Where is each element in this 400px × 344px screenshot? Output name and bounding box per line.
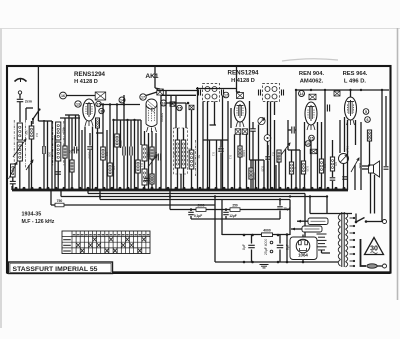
svg-text:1934-35: 1934-35 xyxy=(22,212,42,218)
resistor R11 xyxy=(150,174,154,190)
wire supply rail y196.5 xyxy=(61,190,327,214)
capacitor C22 xyxy=(265,145,271,190)
heater stack xyxy=(317,234,327,250)
dropper box A xyxy=(308,218,328,225)
capacitor C20 xyxy=(87,133,93,149)
label 25uF vertical xyxy=(264,239,268,255)
rectifier enclosure xyxy=(290,237,317,260)
svg-text:17: 17 xyxy=(224,93,228,97)
wire speaker left xyxy=(362,168,369,170)
meter circle xyxy=(258,117,265,124)
wire x171 drop xyxy=(170,95,172,190)
grid cap box V3 xyxy=(237,93,244,99)
fuse F1 xyxy=(367,264,377,268)
wire x92 pin drop xyxy=(92,127,94,191)
svg-text:300: 300 xyxy=(62,128,66,133)
label tube V2 AK1 xyxy=(145,73,159,80)
wave switch S1 xyxy=(32,108,41,120)
wire x156 drop xyxy=(155,133,157,190)
svg-text:AK1: AK1 xyxy=(145,73,159,80)
circled 8 xyxy=(99,108,104,113)
wire x249 drop xyxy=(249,101,251,160)
wire x222 drop xyxy=(222,96,224,191)
capacitor C6 xyxy=(158,154,160,161)
resistor R14 xyxy=(277,150,281,162)
wire x222 drop2 xyxy=(221,200,223,236)
text MF 126kHz xyxy=(22,219,55,225)
svg-text:8μF: 8μF xyxy=(286,244,290,250)
wire R3 to bus xyxy=(97,128,99,190)
padder box L7/L8 xyxy=(174,128,188,174)
IF T2 cap right xyxy=(282,90,284,96)
electrolytic C5 xyxy=(130,120,132,190)
wire speaker drop2 xyxy=(374,175,376,214)
thick neutral wire xyxy=(361,239,367,266)
wire y118 link xyxy=(60,117,80,119)
svg-text:300: 300 xyxy=(25,130,29,135)
wire 16 to cap box xyxy=(67,95,96,97)
trimmer arrow osc xyxy=(148,155,157,167)
wire x161 drop xyxy=(160,95,162,190)
wire rect anode xyxy=(302,235,304,263)
circled 15 xyxy=(96,101,101,106)
capacitor C2 xyxy=(10,181,16,183)
box label 18 xyxy=(309,94,316,100)
wire x347 low xyxy=(347,120,349,190)
resistor R15 xyxy=(289,150,293,190)
resistor R20 750 xyxy=(55,199,64,207)
wire supply rail y199.5 xyxy=(100,190,290,235)
electrolytic C17 xyxy=(248,235,255,263)
wire x325 drop xyxy=(324,90,326,190)
resistor R18 xyxy=(330,140,334,177)
svg-text:25: 25 xyxy=(172,152,176,156)
svg-text:STASSFURT IMPERIAL 55: STASSFURT IMPERIAL 55 xyxy=(13,266,98,273)
wire L7 leads xyxy=(177,128,179,190)
resistor R21 2000 xyxy=(196,204,206,212)
wire x382 mains drop xyxy=(381,90,383,222)
wire R1 to bus xyxy=(31,121,33,190)
wire P1 to cap xyxy=(12,177,14,181)
svg-text:0,1: 0,1 xyxy=(212,152,216,156)
svg-text:2000: 2000 xyxy=(119,140,123,147)
wire x311 lower xyxy=(310,141,312,190)
capacitor C11 xyxy=(342,177,348,179)
wire y160 rail xyxy=(250,159,265,161)
svg-text:4000: 4000 xyxy=(263,229,271,233)
wire y108 left link xyxy=(26,107,33,109)
junction dot mid xyxy=(187,102,190,105)
tuning cap C1 xyxy=(43,120,45,190)
wire x176 mid xyxy=(175,95,177,128)
svg-text:50000: 50000 xyxy=(160,113,164,122)
svg-text:0,5: 0,5 xyxy=(112,166,116,170)
tube V3 RENS1294 xyxy=(234,101,246,127)
box label 11 xyxy=(189,105,194,110)
wire x279 lower xyxy=(278,162,280,190)
wire x134.5 drop xyxy=(134,120,136,190)
circled 15 osc xyxy=(177,105,182,110)
wire y120 rail2 xyxy=(114,119,142,121)
wire x300 mid xyxy=(299,150,301,190)
tube V5 RES964 xyxy=(345,97,357,125)
circled 14 af xyxy=(299,91,305,97)
svg-text:25μF 4000: 25μF 4000 xyxy=(264,239,268,255)
wire L8 leads xyxy=(183,128,185,190)
svg-text:50μF: 50μF xyxy=(346,146,350,153)
svg-text:L 496 D.: L 496 D. xyxy=(344,79,367,85)
circled 17 ak1 xyxy=(140,92,157,100)
schematic border frame xyxy=(7,66,391,273)
value 600 label xyxy=(358,163,362,169)
wire x124 up xyxy=(123,95,125,105)
value 50000 vertical xyxy=(160,113,164,122)
transformer core xyxy=(342,212,344,267)
wire supply rail y205 xyxy=(51,190,215,205)
wire x72 drop xyxy=(71,118,73,190)
svg-text:30: 30 xyxy=(370,246,378,253)
svg-text:0,1: 0,1 xyxy=(272,152,276,156)
wire y90 rail right xyxy=(296,89,389,91)
svg-text:6: 6 xyxy=(367,118,369,122)
socket box V3b xyxy=(242,129,248,135)
antenna coil L2 xyxy=(17,142,22,161)
svg-text:15: 15 xyxy=(178,106,182,110)
wire V5 top xyxy=(350,90,352,97)
potentiometer P1 xyxy=(9,162,18,179)
scan top edge line xyxy=(0,28,400,30)
svg-text:500: 500 xyxy=(48,152,52,157)
svg-text:15: 15 xyxy=(310,136,314,140)
volume pot arrow xyxy=(26,160,33,190)
label tube V4 REN904 xyxy=(299,71,325,84)
circled 17 xyxy=(223,92,229,98)
wire x296 drop xyxy=(295,90,297,190)
box label 21 xyxy=(334,91,340,96)
transformer taps xyxy=(350,217,356,267)
wire x127.5 drop xyxy=(127,120,129,190)
IF transformer T2 box xyxy=(263,84,280,102)
title box xyxy=(9,262,113,274)
oscillator coil L3 xyxy=(56,122,61,140)
wire antenna lead xyxy=(19,94,21,98)
electrolytic C4 xyxy=(123,105,125,191)
wire supply rail y193.5 xyxy=(88,190,305,241)
osc coil L5 xyxy=(142,145,147,161)
wire y133 left small xyxy=(96,132,103,134)
svg-text:25μF: 25μF xyxy=(283,207,290,211)
wire stack down xyxy=(322,250,331,253)
resistor R10 xyxy=(150,131,154,174)
box label 20 xyxy=(310,149,317,154)
wire x231 mid xyxy=(230,108,232,128)
wire y166 right xyxy=(362,165,370,167)
mains switch xyxy=(355,218,382,224)
label tube V5 RES964 xyxy=(343,71,368,84)
resistor R12 xyxy=(238,134,242,190)
wire x270 drop xyxy=(270,102,272,191)
text 1934-35 xyxy=(22,212,42,218)
wire x107 mid xyxy=(106,130,108,190)
IF T2 coils xyxy=(265,87,277,100)
svg-text:1000: 1000 xyxy=(154,152,158,159)
svg-text:50000: 50000 xyxy=(253,172,257,180)
svg-text:0,25: 0,25 xyxy=(306,166,310,172)
circled 5 xyxy=(363,109,369,115)
electrolytic C18 xyxy=(277,235,290,263)
capacitor C23 xyxy=(288,127,296,134)
svg-text:0,1μF: 0,1μF xyxy=(194,214,202,218)
wire switch up xyxy=(355,214,357,223)
wire L2 to bus xyxy=(19,161,21,190)
wire x246 drop xyxy=(246,134,248,190)
circled 13 xyxy=(75,101,81,107)
capacitor C15 xyxy=(277,200,291,220)
potentiometer P3 xyxy=(351,158,359,190)
wire x209 low xyxy=(209,140,211,190)
wire y121 link xyxy=(38,120,52,122)
wire V2 cap lead xyxy=(155,66,160,89)
transformer secondary xyxy=(346,213,348,267)
svg-text:0,5: 0,5 xyxy=(334,162,338,166)
circled 19 xyxy=(305,141,311,147)
wire antenna to coil xyxy=(19,102,21,122)
svg-text:15: 15 xyxy=(97,102,101,106)
svg-text:750: 750 xyxy=(57,199,63,203)
wire x361 upper xyxy=(360,122,362,155)
wire C2 to bus xyxy=(12,184,14,190)
resistor R1 xyxy=(29,126,34,139)
arrow lead B xyxy=(291,228,302,231)
wire x69 upper xyxy=(68,115,70,190)
svg-text:0,1: 0,1 xyxy=(105,152,109,156)
wire y88.5 rail xyxy=(196,88,237,90)
shield dash line right xyxy=(25,120,27,168)
speaker LS xyxy=(369,161,380,177)
wire x79 drop xyxy=(78,115,80,190)
wire x141 drop xyxy=(140,120,142,145)
svg-text:14: 14 xyxy=(300,92,304,96)
junction dots rails xyxy=(99,89,383,264)
wire x355 upper xyxy=(355,120,357,145)
wire y219 gnd link xyxy=(191,218,280,220)
wire x321 upper xyxy=(321,122,323,159)
capacitor C12 xyxy=(384,167,389,169)
wire fuse to term xyxy=(377,265,382,267)
scan right edge line xyxy=(397,28,399,300)
svg-text:RES 964.: RES 964. xyxy=(343,71,368,77)
wire x181 drop xyxy=(180,174,182,190)
wire x305 drop xyxy=(304,122,306,190)
svg-text:0,1: 0,1 xyxy=(229,155,233,159)
wire T1 down xyxy=(208,102,215,191)
wire y150 right rail xyxy=(288,149,300,151)
shield dash line L3 xyxy=(52,121,54,166)
bus junction dots xyxy=(15,187,346,190)
mains terminal 1 xyxy=(383,220,387,224)
wire L4 to bus xyxy=(57,161,59,190)
svg-text:13: 13 xyxy=(76,102,80,106)
electrolytic C16 label xyxy=(242,244,246,250)
svg-text:30000: 30000 xyxy=(276,155,280,163)
transformer primary xyxy=(338,214,340,266)
capacitor C9 xyxy=(327,105,329,112)
wire x317 drop xyxy=(317,122,319,190)
osc coil L7 xyxy=(175,140,179,168)
svg-text:0,2: 0,2 xyxy=(35,133,39,137)
svg-text:12μF: 12μF xyxy=(229,214,236,218)
shield dash L9 xyxy=(194,140,196,176)
svg-text:H 4128 D: H 4128 D xyxy=(231,78,255,84)
wire y95 rail mid xyxy=(161,94,196,96)
svg-text:16: 16 xyxy=(162,101,166,105)
circled 16 osc xyxy=(161,100,167,106)
wire x52 drop xyxy=(51,121,53,190)
wire lamp down xyxy=(343,164,345,191)
svg-text:1000: 1000 xyxy=(88,152,92,159)
wire x203 drop xyxy=(202,102,204,191)
resistor R16 xyxy=(301,161,305,174)
wire x274 lower xyxy=(274,120,276,190)
terminal small a xyxy=(270,241,273,244)
svg-text:2000: 2000 xyxy=(197,204,204,208)
capacitor C-ant 2cm xyxy=(17,99,32,103)
svg-text:250: 250 xyxy=(232,204,238,208)
antenna terminal xyxy=(18,91,21,94)
wire x148.5 drop xyxy=(148,133,150,190)
wire x368 low xyxy=(369,141,371,166)
bus left end ground xyxy=(11,186,13,190)
wire x264 low xyxy=(263,160,265,190)
svg-text:17: 17 xyxy=(141,95,145,99)
wire x255 low xyxy=(255,160,257,190)
circled 15 af xyxy=(309,135,315,141)
resistor R3 xyxy=(96,118,100,128)
box label 10 xyxy=(170,102,175,107)
capacitor C10 xyxy=(330,178,336,190)
wire speaker drop1 xyxy=(370,173,372,214)
terminal small b xyxy=(270,250,273,253)
capacitor C21 xyxy=(218,140,224,190)
title text xyxy=(13,266,98,273)
wire y115 left xyxy=(65,114,79,116)
svg-text:5: 5 xyxy=(365,110,367,114)
svg-text:2cm: 2cm xyxy=(25,100,32,104)
shield dash L4 right xyxy=(63,121,65,166)
wire x110 drop xyxy=(109,105,111,191)
circled 16 grid xyxy=(60,92,67,99)
wire x55 mid xyxy=(54,135,56,190)
ground symbol PSU xyxy=(260,265,269,268)
capacitor C7 xyxy=(144,178,150,180)
wire x186 upper xyxy=(185,103,187,128)
svg-text:0,1: 0,1 xyxy=(323,164,327,168)
wire x340 upper xyxy=(339,120,341,153)
svg-text:1064: 1064 xyxy=(298,253,308,258)
resistor R8 xyxy=(115,134,120,147)
grid cap box V1 xyxy=(95,92,106,100)
scan left edge strip xyxy=(0,28,2,328)
svg-text:8: 8 xyxy=(101,109,103,113)
IF T2 cap left xyxy=(259,90,261,96)
arrow lead A xyxy=(297,220,308,223)
tube V1 RENS1294 xyxy=(83,99,95,126)
svg-text:REN 904.: REN 904. xyxy=(299,71,325,77)
svg-text:1000: 1000 xyxy=(242,150,246,157)
wire x117 drop xyxy=(116,105,118,191)
wire x216 low xyxy=(216,140,218,190)
resistor R9 xyxy=(136,120,141,190)
valve data table xyxy=(62,231,150,254)
resistor R5 xyxy=(70,160,74,172)
wire y235 rail xyxy=(222,234,290,236)
svg-text:AM4062.: AM4062. xyxy=(300,79,324,85)
wire x90 low xyxy=(89,150,91,190)
wire x258 drop xyxy=(258,125,260,191)
wire y90 rail mid xyxy=(157,90,197,92)
circled 6 xyxy=(365,117,371,123)
wire y262 rail xyxy=(215,261,338,263)
label tube V1 RENS1294 xyxy=(74,71,106,85)
resistor R4 xyxy=(63,146,67,158)
resistor R23 4000 xyxy=(262,229,273,237)
wire x47 upper xyxy=(47,121,49,190)
antenna symbol xyxy=(15,79,27,83)
svg-text:50: 50 xyxy=(197,155,201,159)
svg-text:0,1: 0,1 xyxy=(140,163,144,167)
svg-text:600: 600 xyxy=(147,152,151,157)
resistor R17 xyxy=(319,159,323,173)
capacitor C14 xyxy=(223,210,237,220)
wire x75 mid xyxy=(75,115,77,146)
wire y140 mid rail xyxy=(203,139,228,141)
svg-text:H 4128 D: H 4128 D xyxy=(74,79,98,85)
wire y125 V3 link xyxy=(210,124,217,126)
IF T1 coils xyxy=(205,87,217,100)
wire y209.5 xyxy=(170,190,290,210)
wire x288 mid xyxy=(287,120,289,150)
tube V4 REN904 xyxy=(305,102,317,130)
capacitor C19 xyxy=(55,172,61,174)
wire x361 drop xyxy=(360,155,362,190)
wire top feed x38 xyxy=(37,66,39,121)
wire y103 rail xyxy=(166,102,186,104)
resistor R6 xyxy=(101,147,106,160)
wire x276 low xyxy=(275,165,277,190)
wire y104 rail xyxy=(100,104,140,106)
warning triangle xyxy=(365,238,384,255)
wire x215 drop xyxy=(214,197,216,263)
wire V3 top xyxy=(237,66,241,92)
potentiometer P2 xyxy=(281,143,290,190)
resistor R13 xyxy=(249,160,253,190)
svg-text:19: 19 xyxy=(306,142,310,146)
wire x228 drop xyxy=(227,101,229,190)
resistor R7 xyxy=(108,163,113,176)
svg-text:8μF: 8μF xyxy=(242,244,246,250)
capacitor C13 xyxy=(188,210,202,220)
svg-text:RENS1294: RENS1294 xyxy=(228,70,260,77)
osc coil L8 xyxy=(181,140,185,168)
IF transformer T1 box xyxy=(203,84,220,102)
wire x26 upper xyxy=(25,108,27,120)
resistor R19 xyxy=(367,130,371,141)
circled 14 xyxy=(119,97,125,103)
svg-text:50: 50 xyxy=(69,150,73,154)
wire x113.5 mid xyxy=(113,120,115,190)
wire x234 drop xyxy=(234,134,236,190)
pilot lamp xyxy=(339,154,349,164)
